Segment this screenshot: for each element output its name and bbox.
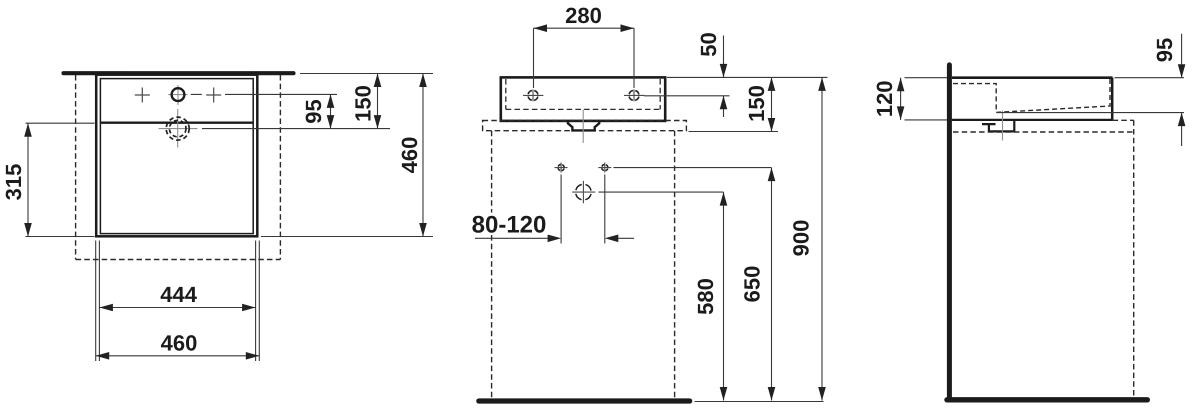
- trap cross: [572, 181, 595, 203]
- svg-text:580: 580: [693, 278, 718, 315]
- arrows 900: [818, 77, 826, 91]
- ext line drain row left: [26, 122, 95, 124]
- basin side bottom: [952, 119, 1113, 121]
- svg-text:650: 650: [740, 266, 765, 303]
- svg-text:150: 150: [351, 85, 376, 122]
- fixing hole left circle: [558, 165, 564, 171]
- fixing hole left cross: [555, 163, 568, 173]
- basin inner dashed left: [505, 79, 507, 109]
- dim line 150: [377, 74, 379, 129]
- svg-text:80-120: 80-120: [472, 212, 547, 239]
- arrow 95 side down: [1178, 64, 1186, 78]
- svg-text:315: 315: [1, 164, 26, 201]
- ext basin bottom left: [905, 119, 948, 121]
- ext line wall right: [300, 73, 433, 75]
- tap hole mark right circle: [629, 90, 639, 100]
- ext line tap row: [191, 93, 337, 95]
- alt tap hole cross right: [206, 88, 221, 103]
- floor bar: [479, 398, 690, 403]
- drain outer dashed circle: [166, 117, 189, 140]
- arrows 444: [99, 304, 113, 312]
- shelf hidden dashed side bottom: [953, 131, 1134, 133]
- pedestal dashed right: [674, 131, 676, 398]
- drain outlet side: [982, 121, 1014, 131]
- shelf hidden dashed rect: [483, 121, 687, 131]
- wall line: [64, 71, 294, 75]
- arrows 580: [720, 192, 728, 206]
- dim line 80-120: [475, 237, 634, 239]
- dim line 444: [99, 307, 255, 309]
- arrow 50 down: [720, 64, 728, 78]
- ext basin top left: [905, 77, 948, 79]
- hidden dashed outline bottom: [76, 259, 281, 261]
- arrows 95: [327, 94, 335, 108]
- basin inner rect: [100, 79, 253, 234]
- dim line 460 bottom: [96, 355, 260, 357]
- basin side right: [1111, 78, 1114, 120]
- dim line 900: [821, 77, 823, 400]
- dim line 95 side: [1181, 34, 1183, 146]
- ext line drain row right: [202, 128, 390, 130]
- basin inner dashed bottom: [506, 108, 660, 110]
- dim line 150 front: [771, 77, 773, 131]
- svg-text:460: 460: [397, 137, 422, 174]
- arrows 460 right: [419, 74, 427, 88]
- pedestal dashed left: [491, 131, 493, 398]
- alt tap hole cross left: [135, 88, 150, 103]
- back ledge line: [100, 121, 253, 123]
- arrows 280: [534, 24, 548, 32]
- ext vert 444 left: [98, 241, 100, 362]
- ext trap right: [599, 191, 724, 193]
- outlet centerline: [582, 110, 584, 144]
- dim line 95: [330, 94, 332, 128]
- ext line basin bottom right: [261, 236, 433, 238]
- ext bowl bottom right: [997, 112, 1184, 114]
- drain centerline vertical: [177, 109, 179, 148]
- arrows 120: [897, 78, 905, 92]
- ext tap row right: [644, 95, 730, 97]
- drain outlet funnel: [568, 121, 599, 131]
- ext 280 right: [633, 28, 635, 88]
- hidden dashed outline right: [279, 75, 281, 260]
- wall line vertical: [947, 65, 952, 400]
- tap hole circle: [172, 88, 185, 101]
- ext 80-120 right: [604, 175, 606, 244]
- ext basin top right: [667, 76, 828, 78]
- tap hole mark left circle: [528, 90, 538, 100]
- svg-text:150: 150: [744, 85, 769, 122]
- dim line 460 right: [422, 74, 424, 237]
- dim line 120: [900, 78, 902, 120]
- arrows 315: [24, 123, 32, 137]
- svg-text:95: 95: [301, 99, 326, 123]
- drain inner dashed circle: [169, 120, 186, 137]
- fixing hole right circle: [602, 165, 608, 171]
- ext vert 460 left: [95, 241, 97, 362]
- hidden dashed outline left: [75, 75, 77, 260]
- drain centerline horizontal: [159, 128, 198, 130]
- dim line 650: [771, 168, 773, 401]
- svg-text:460: 460: [161, 331, 198, 356]
- arrows 460 bottom: [96, 352, 110, 360]
- dim line 315: [27, 123, 29, 236]
- svg-text:900: 900: [789, 220, 814, 257]
- outlet centerline side: [1002, 111, 1004, 141]
- arrows 650: [768, 168, 776, 182]
- floor line: [947, 397, 1147, 402]
- ext line basin bottom left: [26, 236, 95, 238]
- pedestal dashed side right: [1133, 120, 1135, 397]
- arrows 80-120: [548, 235, 562, 243]
- arrows 150: [374, 74, 382, 88]
- trap dashed circle: [576, 184, 592, 200]
- ext fixing holes right: [614, 167, 772, 169]
- ext vert 444 right: [255, 241, 257, 362]
- tap hole mark right cross: [624, 89, 644, 101]
- basin front rect: [501, 77, 665, 121]
- basin inner dashed right: [659, 79, 661, 109]
- svg-text:95: 95: [1152, 38, 1177, 62]
- ext basin top right: [1115, 77, 1185, 79]
- label 80-120: [470, 213, 548, 236]
- tap hole centerline horizontal: [168, 94, 187, 96]
- arrows 150 front: [768, 77, 776, 91]
- arrow 50 up: [720, 96, 728, 110]
- shelf hidden dashed side top: [1113, 119, 1134, 121]
- hidden bowl outline dashed: [953, 78, 1110, 112]
- dim line 580: [723, 192, 725, 400]
- svg-text:120: 120: [872, 80, 897, 117]
- svg-text:444: 444: [160, 282, 197, 307]
- ext 280 left: [533, 28, 535, 88]
- tap hole mark left cross: [523, 89, 543, 101]
- arrow 95 side up: [1178, 113, 1186, 127]
- ext vert 460 right: [258, 241, 260, 362]
- fixing hole right cross: [598, 163, 611, 173]
- ext floor right: [695, 401, 824, 403]
- ext 80-120 left: [560, 175, 562, 244]
- svg-text:50: 50: [696, 32, 721, 56]
- dim line 50: [723, 36, 725, 118]
- basin side top: [952, 76, 1113, 79]
- ext shelf bottom right: [689, 131, 779, 133]
- svg-text:280: 280: [565, 3, 602, 28]
- basin outer rect: [96, 75, 257, 237]
- tap hole centerline vertical: [177, 85, 179, 105]
- dim line 280: [534, 27, 635, 29]
